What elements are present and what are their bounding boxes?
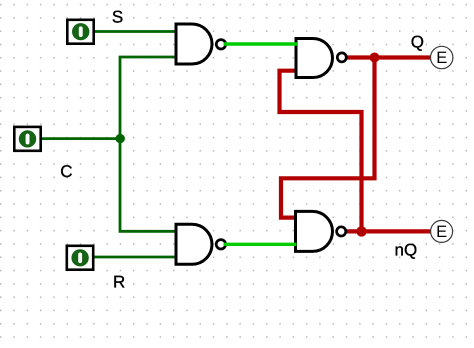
svg-text:E: E — [436, 49, 447, 67]
label S — [112, 8, 123, 27]
node Q junction — [370, 53, 380, 63]
svg-text:Q: Q — [411, 33, 424, 52]
nand gate U2 — [176, 224, 226, 264]
wire C input to node — [41, 137, 121, 140]
svg-text:S: S — [112, 8, 123, 27]
label Q — [411, 33, 424, 52]
label C — [60, 162, 72, 181]
wire Q feedback to U4 — [281, 58, 375, 218]
wire nQ output — [346, 229, 432, 233]
wire S input to U1 — [94, 30, 177, 33]
wire U2 output to U4 input — [224, 243, 297, 246]
probe E at Q — [431, 46, 453, 68]
node C junction — [116, 134, 125, 143]
wire U1 output to U3 input — [224, 42, 298, 45]
input switch R value 0 — [67, 246, 93, 270]
wire nQ feedback to U3 — [280, 71, 362, 232]
svg-text:R: R — [113, 272, 125, 291]
label R — [113, 272, 125, 291]
label nQ — [395, 241, 418, 260]
nand gate U1 — [176, 24, 226, 64]
input switch C value 0 — [14, 127, 40, 151]
input switch S value 0 — [67, 20, 93, 44]
nand gate U4 — [296, 211, 346, 251]
wire C vertical bus — [120, 57, 177, 231]
nand gate U3 — [296, 39, 346, 78]
probe E at nQ — [431, 220, 453, 242]
node nQ junction — [356, 226, 366, 236]
svg-text:nQ: nQ — [395, 241, 418, 260]
svg-text:E: E — [436, 223, 447, 241]
svg-text:C: C — [60, 162, 72, 181]
wire Q output — [346, 55, 431, 59]
wire R input to U2 — [93, 256, 177, 259]
